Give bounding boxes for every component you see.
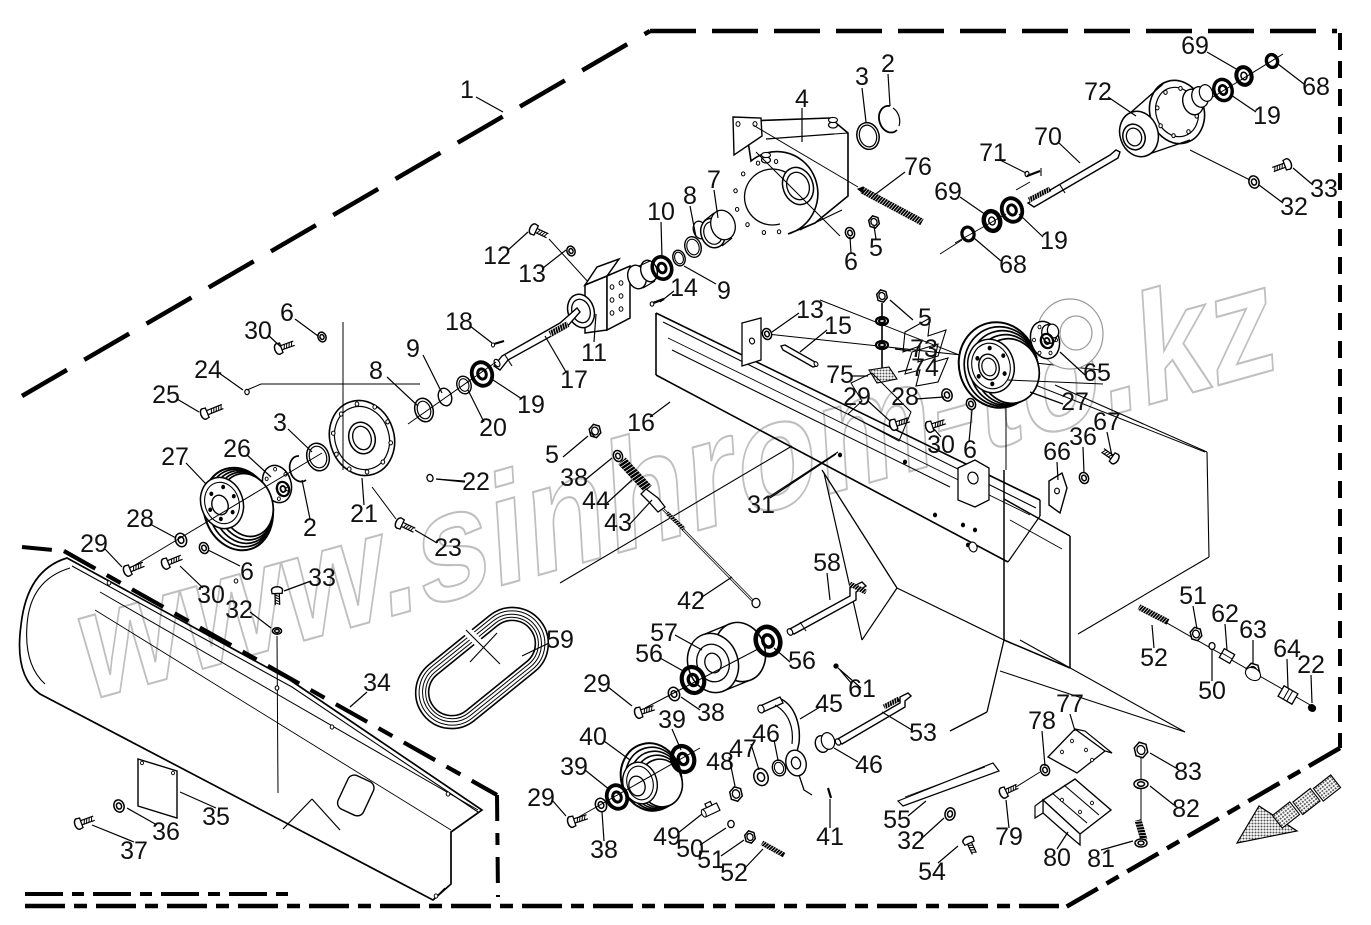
svg-text:31: 31 [747, 491, 775, 519]
svg-text:62: 62 [1211, 600, 1239, 628]
svg-text:29: 29 [583, 670, 611, 698]
svg-text:6: 6 [963, 436, 977, 464]
svg-text:30: 30 [197, 581, 225, 609]
svg-text:33: 33 [308, 564, 336, 592]
svg-text:10: 10 [647, 198, 675, 226]
svg-text:7: 7 [707, 166, 721, 194]
svg-text:30: 30 [927, 431, 955, 459]
svg-text:76: 76 [904, 153, 932, 181]
svg-text:12: 12 [483, 242, 511, 270]
svg-text:13: 13 [518, 260, 546, 288]
svg-text:18: 18 [445, 308, 473, 336]
svg-text:42: 42 [677, 587, 705, 615]
svg-text:23: 23 [434, 534, 462, 562]
svg-text:28: 28 [126, 505, 154, 533]
svg-text:19: 19 [517, 391, 545, 419]
svg-text:19: 19 [1040, 227, 1068, 255]
svg-text:2: 2 [881, 50, 895, 78]
svg-text:68: 68 [1302, 73, 1330, 101]
svg-text:5: 5 [545, 441, 559, 469]
svg-text:32: 32 [1280, 193, 1308, 221]
svg-text:19: 19 [1253, 102, 1281, 130]
svg-text:83: 83 [1174, 758, 1202, 786]
svg-text:32: 32 [897, 827, 925, 855]
svg-text:43: 43 [604, 509, 632, 537]
svg-text:36: 36 [152, 818, 180, 846]
svg-text:8: 8 [683, 182, 697, 210]
svg-text:15: 15 [824, 312, 852, 340]
svg-text:11: 11 [581, 339, 607, 367]
svg-text:56: 56 [788, 647, 816, 675]
svg-text:52: 52 [1140, 644, 1168, 672]
svg-text:35: 35 [202, 803, 230, 831]
svg-text:82: 82 [1172, 795, 1200, 823]
svg-text:9: 9 [406, 335, 420, 363]
svg-text:72: 72 [1084, 78, 1112, 106]
svg-text:9: 9 [717, 277, 731, 305]
svg-text:63: 63 [1239, 616, 1267, 644]
svg-text:65: 65 [1083, 359, 1111, 387]
svg-text:39: 39 [560, 753, 588, 781]
svg-text:28: 28 [891, 383, 919, 411]
svg-text:1: 1 [460, 76, 474, 104]
svg-text:69: 69 [934, 178, 962, 206]
svg-text:77: 77 [1056, 690, 1084, 718]
svg-text:3: 3 [855, 63, 869, 91]
svg-text:56: 56 [635, 640, 663, 668]
svg-text:27: 27 [161, 443, 189, 471]
svg-text:58: 58 [813, 549, 841, 577]
svg-text:26: 26 [223, 435, 251, 463]
svg-text:61: 61 [848, 675, 876, 703]
svg-text:71: 71 [979, 139, 1007, 167]
svg-text:27: 27 [1061, 388, 1089, 416]
svg-text:52: 52 [720, 859, 748, 887]
svg-text:59: 59 [546, 626, 574, 654]
svg-text:6: 6 [240, 558, 254, 586]
svg-text:14: 14 [670, 274, 698, 302]
svg-text:40: 40 [579, 723, 607, 751]
svg-text:74: 74 [911, 354, 939, 382]
svg-text:8: 8 [369, 357, 383, 385]
svg-text:30: 30 [244, 317, 272, 345]
svg-text:20: 20 [479, 414, 507, 442]
svg-text:25: 25 [152, 381, 180, 409]
svg-text:54: 54 [918, 858, 946, 886]
svg-text:50: 50 [1198, 677, 1226, 705]
svg-text:13: 13 [796, 296, 824, 324]
svg-text:22: 22 [1297, 651, 1325, 679]
svg-text:32: 32 [225, 596, 253, 624]
svg-text:29: 29 [843, 383, 871, 411]
svg-text:51: 51 [1179, 582, 1207, 610]
svg-text:29: 29 [527, 784, 555, 812]
svg-text:45: 45 [815, 690, 843, 718]
svg-text:78: 78 [1028, 707, 1056, 735]
svg-text:68: 68 [999, 251, 1027, 279]
svg-text:46: 46 [752, 720, 780, 748]
svg-text:3: 3 [273, 409, 287, 437]
svg-text:81: 81 [1087, 845, 1115, 873]
svg-text:67: 67 [1093, 408, 1121, 436]
svg-text:6: 6 [280, 299, 294, 327]
svg-text:24: 24 [194, 356, 222, 384]
svg-text:5: 5 [918, 304, 932, 332]
svg-text:37: 37 [120, 837, 148, 865]
svg-text:66: 66 [1043, 438, 1071, 466]
svg-text:16: 16 [627, 409, 655, 437]
svg-text:29: 29 [80, 530, 108, 558]
svg-text:34: 34 [363, 669, 391, 697]
svg-text:33: 33 [1310, 175, 1338, 203]
svg-text:38: 38 [697, 699, 725, 727]
svg-text:69: 69 [1181, 32, 1209, 60]
svg-text:53: 53 [909, 719, 937, 747]
svg-text:46: 46 [855, 751, 883, 779]
svg-text:22: 22 [462, 468, 490, 496]
svg-text:70: 70 [1034, 123, 1062, 151]
